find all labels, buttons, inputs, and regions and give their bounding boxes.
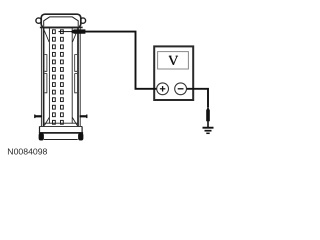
svg-text:N0084098: N0084098 [7, 147, 47, 157]
